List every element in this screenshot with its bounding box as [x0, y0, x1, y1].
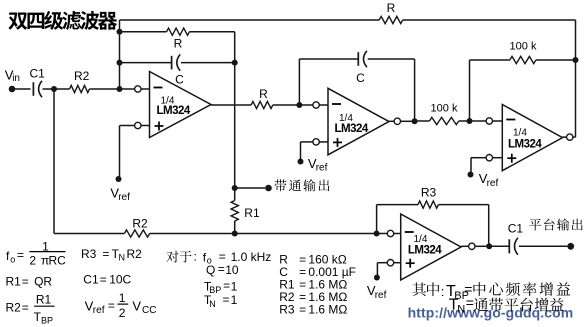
- svg-text:100 k: 100 k: [510, 41, 537, 53]
- svg-text:1/4: 1/4: [513, 128, 527, 139]
- svg-text:LM324: LM324: [508, 139, 542, 151]
- wire U2 fb top right: [368, 58, 415, 60]
- svg-text:Q: Q: [206, 263, 215, 277]
- svg-text:2: 2: [119, 306, 126, 320]
- node U2 output junction: [412, 118, 418, 124]
- wire node A to R2: [54, 88, 70, 90]
- svg-text:ref: ref: [93, 305, 105, 316]
- wire U3 output to vertical: [563, 136, 567, 138]
- node U3 Vref terminal: [468, 172, 474, 178]
- resistor 100k (series): [429, 117, 458, 124]
- wire U2 output: [389, 120, 394, 122]
- title 双四级滤波器: [8, 12, 27, 29]
- pin U4 inverting input circle: [387, 230, 393, 236]
- svg-text:ref: ref: [316, 163, 328, 174]
- pin U3 inverting input circle: [486, 118, 492, 124]
- svg-text:N: N: [209, 299, 216, 309]
- wire bottom rail right: [235, 233, 377, 235]
- svg-text:1/4: 1/4: [414, 234, 428, 245]
- wire C1 to terminal: [519, 245, 567, 247]
- resistor R1: [231, 201, 238, 222]
- op-amp U1 1/4 LM324: [150, 72, 212, 138]
- svg-text:LM324: LM324: [157, 105, 191, 117]
- svg-text:2: 2: [29, 254, 36, 268]
- wire U3 plus stub: [493, 157, 503, 159]
- svg-text:RC: RC: [49, 254, 67, 268]
- op-amp U2 1/4 LM324: [328, 88, 389, 155]
- node U3 minus junction: [467, 118, 473, 124]
- svg-text:1.6 MΩ: 1.6 MΩ: [308, 303, 347, 317]
- svg-text:CC: CC: [142, 305, 156, 316]
- wire fb R right: [189, 31, 234, 33]
- svg-text:=: =: [299, 303, 306, 317]
- node 100k/global junction: [573, 57, 579, 63]
- svg-text:ref: ref: [375, 290, 387, 301]
- svg-text:R3: R3: [421, 186, 437, 200]
- capacitor C1 (input): [32, 82, 34, 96]
- capacitor C1 (output): [508, 239, 510, 253]
- wire to U2 input circle: [299, 104, 313, 106]
- note 其中:TBP=中心频率增益: [412, 282, 426, 296]
- pin U4 non-inverting input circle: [387, 260, 393, 266]
- wire fb C left: [120, 62, 172, 64]
- label 带通输出: [275, 179, 287, 191]
- wire U3 fb top left: [470, 59, 510, 61]
- node U1 Vref terminal: [116, 176, 122, 182]
- svg-text:R2: R2: [127, 247, 143, 261]
- wire U3 plus to Vref: [471, 157, 486, 159]
- svg-text:R1: R1: [244, 206, 260, 220]
- wire U2 fb left vertical: [298, 59, 300, 105]
- wire U3 fb top right: [536, 59, 576, 61]
- op-amp U2 labels: [332, 103, 341, 105]
- svg-text:R3: R3: [81, 247, 97, 261]
- svg-text:R: R: [174, 37, 183, 51]
- label 对于:: [166, 251, 178, 263]
- svg-text:=: =: [22, 300, 29, 314]
- wire bandpass tap: [235, 187, 266, 189]
- wire 100k to U3 minus node: [459, 120, 470, 122]
- node U4 minus junction: [374, 231, 380, 237]
- capacitor C (U1 feedback): [171, 56, 173, 70]
- pin U3 non-inverting input circle: [486, 155, 492, 161]
- wire U2 fb right vertical: [414, 59, 416, 121]
- wire U1 plus to Vref: [120, 125, 135, 127]
- svg-text:=: =: [17, 248, 24, 262]
- wire U1 output: [211, 104, 251, 106]
- node U2 Vref terminal: [298, 159, 304, 165]
- node Vin input terminal: [9, 86, 16, 93]
- resistor 100k (U3 feedback): [510, 56, 536, 63]
- svg-text:=: =: [223, 278, 230, 292]
- node bottom rail R1 junction: [232, 231, 238, 237]
- svg-text:C1: C1: [508, 222, 524, 236]
- wire minus node to U1 input circle: [120, 88, 135, 90]
- wire U2 plus to Vref: [301, 141, 313, 143]
- svg-text:=: =: [102, 247, 109, 261]
- pin U2 output circle: [394, 118, 400, 124]
- pin U2 inverting input circle: [313, 102, 319, 108]
- resistor R (U1-U2 series): [251, 101, 273, 108]
- wire U4 plus stub: [394, 262, 401, 264]
- svg-text:R2: R2: [132, 217, 148, 231]
- svg-text:=: =: [223, 292, 230, 306]
- wire circle to U3 edge: [493, 120, 503, 122]
- pin U1 inverting input circle: [135, 86, 141, 92]
- svg-text:R1: R1: [6, 274, 22, 288]
- wire global feedback top: [120, 19, 380, 21]
- svg-text:R2: R2: [6, 300, 22, 314]
- wire to U4 input circle: [377, 233, 388, 235]
- wire U4 out to C1: [489, 245, 509, 247]
- pin U4 output circle: [469, 243, 475, 249]
- svg-text:1: 1: [231, 279, 238, 293]
- wire bottom rail mid: [150, 233, 235, 235]
- wire U1 minus vertical rail: [119, 20, 121, 89]
- wire U2 out to 100k: [415, 120, 430, 122]
- pin U3 output circle: [567, 134, 573, 140]
- capacitor C (U2 feedback): [357, 52, 359, 66]
- svg-text:10: 10: [225, 263, 239, 277]
- pin U2 non-inverting input circle: [313, 139, 319, 145]
- svg-text:R3: R3: [279, 303, 295, 317]
- resistor R3 (U4 feedback): [418, 201, 438, 208]
- node U4 Vref terminal: [374, 275, 380, 281]
- wire U1 plus stub: [141, 125, 150, 127]
- wire U4 output: [461, 245, 469, 247]
- node bandpass terminal: [265, 185, 272, 192]
- wire circle to U4 edge: [394, 233, 401, 235]
- op-amp U3 labels: [506, 119, 515, 121]
- svg-text:R2: R2: [74, 69, 90, 83]
- op-amp U4 labels: [405, 231, 414, 233]
- wire R to U2 minus node: [273, 104, 300, 106]
- wire U2 plus stub: [319, 141, 328, 143]
- wire U2 fb top left: [299, 58, 358, 60]
- svg-text:R: R: [387, 1, 396, 15]
- svg-text:BP: BP: [41, 316, 53, 326]
- wire circle to U2 edge: [319, 104, 328, 106]
- wire node A down to bottom rail: [53, 89, 55, 234]
- wire U4 fb right vertical: [488, 205, 490, 247]
- svg-text:=: =: [100, 273, 107, 287]
- wire U4 fb top right: [438, 204, 488, 206]
- node fb C junction left: [117, 60, 123, 66]
- wire R2 to U1 minus node: [90, 88, 120, 90]
- svg-text:LM324: LM324: [335, 123, 369, 135]
- svg-text:=: =: [22, 274, 29, 288]
- svg-text::: :: [194, 250, 197, 264]
- wire U4 fb left vertical: [376, 205, 378, 234]
- svg-text::: :: [441, 284, 445, 299]
- svg-text:R: R: [259, 87, 268, 101]
- svg-text:ref: ref: [487, 178, 499, 189]
- svg-text:=: =: [218, 262, 225, 276]
- op-amp U4 1/4 LM324: [401, 214, 461, 280]
- op-amp U1 labels: [154, 87, 163, 89]
- wire circle to U1 edge: [141, 88, 150, 90]
- svg-text:QR: QR: [34, 274, 52, 288]
- wire Vin to C1: [12, 88, 31, 90]
- svg-text:o: o: [10, 255, 15, 265]
- node platform output terminal: [567, 243, 574, 250]
- svg-text:C: C: [356, 71, 365, 85]
- node bandpass junction: [232, 185, 238, 191]
- svg-text:C1: C1: [30, 67, 46, 81]
- svg-text:N: N: [119, 253, 126, 263]
- svg-text:1: 1: [119, 291, 126, 305]
- svg-text:LM324: LM324: [408, 245, 442, 257]
- node U4 output junction: [486, 243, 492, 249]
- svg-text:in: in: [12, 73, 20, 84]
- svg-text:100 k: 100 k: [431, 103, 458, 115]
- wire U4 fb top left: [377, 204, 418, 206]
- label 平台输出: [529, 219, 541, 231]
- wire fb R left: [120, 31, 167, 33]
- svg-text:=: =: [466, 295, 474, 311]
- node fb R junction left: [117, 29, 123, 35]
- wire U3 fb left vertical: [469, 60, 471, 121]
- wire to U3 input circle: [470, 120, 487, 122]
- wire C1 to node A: [43, 88, 55, 90]
- wire fb C right: [181, 62, 235, 64]
- wire bottom rail left: [54, 233, 124, 235]
- resistor R2 (bottom): [124, 230, 149, 237]
- svg-text:http://www.go-gddq.com: http://www.go-gddq.com: [408, 304, 574, 320]
- svg-text:R1: R1: [36, 293, 52, 307]
- wire U1 output vertical: [234, 32, 236, 201]
- svg-text:10C: 10C: [109, 273, 131, 287]
- resistor R (U1 feedback): [167, 28, 190, 35]
- svg-text:C: C: [175, 72, 184, 86]
- pin U1 non-inverting input circle: [135, 122, 141, 128]
- svg-text:N: N: [457, 303, 465, 315]
- resistor R (global feedback): [379, 16, 403, 23]
- wire U4 plus to Vref: [377, 262, 387, 264]
- op-amp U3 1/4 LM324: [502, 105, 562, 171]
- svg-text:C1: C1: [83, 273, 99, 287]
- node U1 minus junction: [117, 86, 123, 92]
- svg-text:ref: ref: [118, 192, 130, 203]
- node U2 minus junction: [296, 102, 302, 108]
- svg-text:=: =: [108, 299, 115, 313]
- svg-text:V: V: [132, 298, 141, 313]
- node fb C junction right: [232, 60, 238, 66]
- node A junction: [51, 86, 57, 92]
- wire global feedback right vertical: [575, 20, 577, 137]
- svg-text:1: 1: [231, 293, 238, 307]
- resistor R2 (series input): [70, 85, 90, 92]
